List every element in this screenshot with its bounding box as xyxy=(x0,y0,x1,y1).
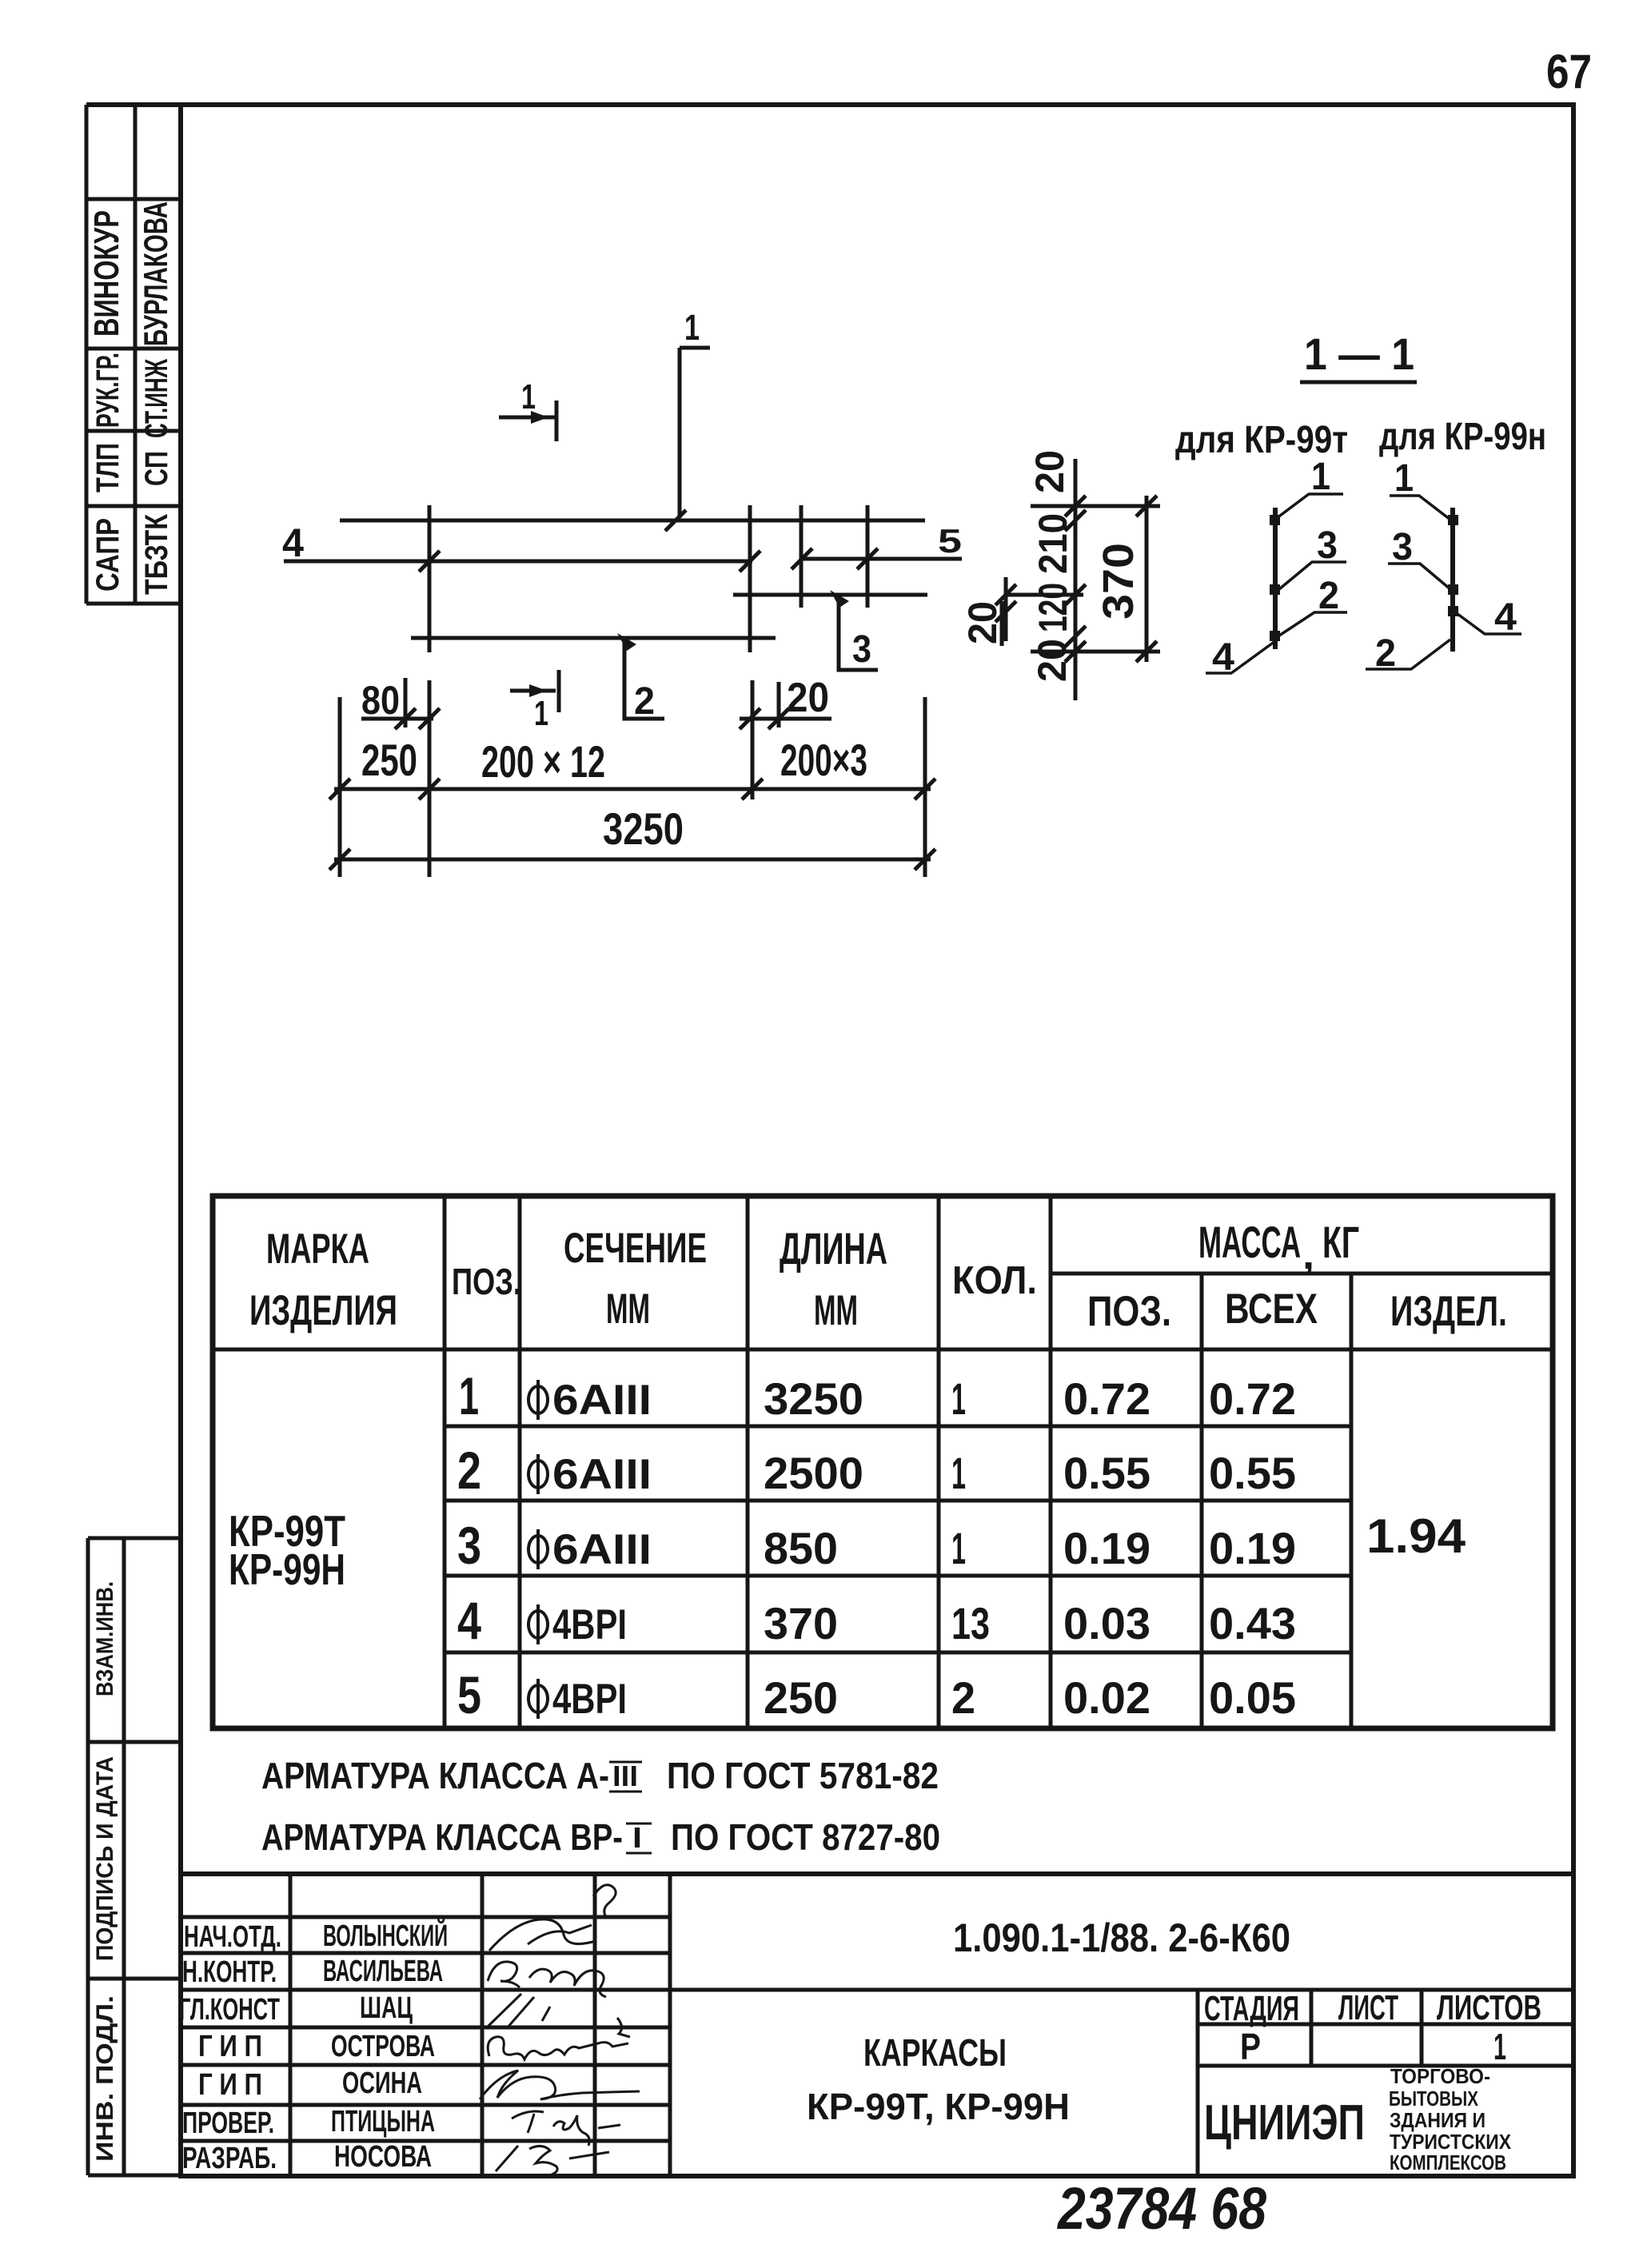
svg-text:2500: 2500 xyxy=(764,1448,863,1498)
svg-text:120: 120 xyxy=(1031,583,1075,632)
dimension 370 line xyxy=(1095,496,1157,662)
svg-text:6АIII: 6АIII xyxy=(552,1526,652,1573)
svg-text:ВАСИЛЬЕВА: ВАСИЛЬЕВА xyxy=(323,1955,443,1988)
sheet count 1 xyxy=(1493,2026,1506,2067)
svg-text:Р: Р xyxy=(1240,2026,1261,2067)
svg-text:4: 4 xyxy=(282,520,304,565)
detail KR-99t leader 2 xyxy=(1279,575,1347,636)
caption для КР-99т xyxy=(1175,419,1348,461)
svg-text:БЫТОВЫХ: БЫТОВЫХ xyxy=(1389,2087,1479,2111)
header СТАДИЯ xyxy=(1204,1989,1299,2028)
svg-text:1.090.1-1/88. 2-6-К60: 1.090.1-1/88. 2-6-К60 xyxy=(953,1915,1290,1960)
svg-text:НОСОВА: НОСОВА xyxy=(334,2140,432,2174)
section dimension chain line xyxy=(1006,459,1160,700)
svg-text:250: 250 xyxy=(361,735,417,785)
stirrup bar 4 right xyxy=(748,505,752,652)
header ЛИСТОВ xyxy=(1437,1988,1541,2027)
svg-text:4ВРI: 4ВРI xyxy=(552,1676,627,1723)
svg-text:,: , xyxy=(1302,1230,1314,1278)
svg-text:ТЛП: ТЛП xyxy=(90,443,126,492)
dimension 20 (cover) xyxy=(740,675,831,729)
svg-text:1: 1 xyxy=(534,694,548,733)
svg-text:1: 1 xyxy=(1493,2026,1506,2067)
signature Ptitsyna xyxy=(512,2111,620,2146)
title name ПТИЦЫНА xyxy=(331,2105,435,2138)
svg-text:67: 67 xyxy=(1546,45,1592,98)
svg-text:ИНВ. ПОДЛ.: ИНВ. ПОДЛ. xyxy=(92,1995,118,2162)
table header ПОЗ. xyxy=(452,1261,521,1302)
svg-text:2: 2 xyxy=(634,680,655,723)
svg-text:СТ.ИНЖ: СТ.ИНЖ xyxy=(139,358,174,438)
section line 1 (vertical cut line) xyxy=(680,307,710,518)
svg-text:МАРКА: МАРКА xyxy=(266,1226,369,1273)
svg-text:ПОДПИСЬ И ДАТА: ПОДПИСЬ И ДАТА xyxy=(92,1756,118,1961)
section title 1-1 xyxy=(1300,329,1417,382)
svg-text:РУК.ГР.: РУК.ГР. xyxy=(90,353,126,428)
doc number 1.090.1-1/88. 2-6-К60 xyxy=(953,1915,1290,1960)
table subheader ИЗДЕЛ. xyxy=(1390,1288,1507,1335)
svg-text:20: 20 xyxy=(1027,450,1072,493)
svg-text:ЛИСТОВ: ЛИСТОВ xyxy=(1437,1988,1541,2027)
stirrup bar 5 second xyxy=(866,505,870,608)
svg-text:СП: СП xyxy=(139,451,174,486)
svg-text:РАЗРАБ.: РАЗРАБ. xyxy=(182,2142,277,2175)
svg-text:ТОРГОВО-: ТОРГОВО- xyxy=(1390,2064,1490,2088)
svg-text:5: 5 xyxy=(457,1665,481,1724)
title role Н.КОНТР. xyxy=(182,1955,277,1989)
detail KR-99n leader 1 xyxy=(1390,457,1450,520)
title block grid xyxy=(181,1874,1573,2176)
svg-text:3250: 3250 xyxy=(764,1373,863,1424)
svg-text:ЛИСТ: ЛИСТ xyxy=(1338,1988,1398,2027)
svg-text:0.72: 0.72 xyxy=(1063,1373,1151,1424)
page number 67 xyxy=(1546,45,1592,98)
svg-text:СЕЧЕНИЕ: СЕЧЕНИЕ xyxy=(564,1225,707,1272)
svg-text:ПО ГОСТ 5781-82: ПО ГОСТ 5781-82 xyxy=(667,1755,939,1796)
handwritten inventory number 23784 68 xyxy=(1056,2175,1266,2242)
svg-text:1 — 1: 1 — 1 xyxy=(1304,329,1414,379)
table row 3 xyxy=(457,1516,1296,1575)
svg-text:ПТИЦЫНА: ПТИЦЫНА xyxy=(331,2105,435,2138)
leader callout 3 xyxy=(830,590,878,671)
svg-text:0.55: 0.55 xyxy=(1063,1448,1151,1498)
svg-text:ПОЗ.: ПОЗ. xyxy=(452,1261,521,1302)
table mark КР-99Т КР-99Н xyxy=(229,1506,345,1594)
stirrup bar 5 first xyxy=(800,505,804,608)
doc title КР-99Т, КР-99Н xyxy=(807,2086,1070,2127)
svg-text:200 × 12: 200 × 12 xyxy=(481,736,605,787)
svg-text:1.94: 1.94 xyxy=(1366,1509,1466,1563)
svg-text:ЦНИИЭП: ЦНИИЭП xyxy=(1204,2095,1365,2150)
leader callout 2 xyxy=(617,633,664,723)
svg-text:КГ: КГ xyxy=(1322,1217,1359,1267)
stamp label СТ.ИНЖ xyxy=(139,358,174,438)
header ЛИСТ xyxy=(1338,1988,1398,2027)
phi symbol row 3 xyxy=(528,1529,548,1569)
stirrup bar 4 left xyxy=(428,505,432,652)
svg-text:Г И П: Г И П xyxy=(198,2068,262,2102)
title role РАЗРАБ. xyxy=(182,2142,277,2175)
table header СЕЧЕНИЕ ММ xyxy=(564,1225,707,1333)
title role ГЛ.КОНСТ xyxy=(179,1993,280,2027)
detail KR-99t leader 1 xyxy=(1277,456,1343,518)
stamp label САПР xyxy=(90,518,126,592)
svg-text:23784 68: 23784 68 xyxy=(1056,2175,1266,2242)
svg-text:0.55: 0.55 xyxy=(1209,1448,1296,1498)
note armature A-III xyxy=(261,1755,939,1796)
table header КОЛ. xyxy=(952,1259,1037,1302)
stamp label РУК.ГР. xyxy=(90,353,126,428)
svg-text:НАЧ.ОТД.: НАЧ.ОТД. xyxy=(184,1920,281,1954)
title role ПРОВЕР. xyxy=(182,2107,274,2140)
dimension 20 bottom (rotated) xyxy=(1030,639,1075,682)
svg-text:САПР: САПР xyxy=(90,518,126,592)
table row 2 xyxy=(457,1441,1296,1500)
detail KR-99n main bar xyxy=(1450,508,1455,652)
svg-text:КАРКАСЫ: КАРКАСЫ xyxy=(863,2032,1007,2075)
detail KR-99t main bar xyxy=(1273,508,1278,649)
svg-text:0.43: 0.43 xyxy=(1209,1598,1296,1648)
svg-text:1: 1 xyxy=(951,1373,966,1424)
svg-text:МАССА: МАССА xyxy=(1198,1217,1301,1267)
title role ГИП 2 xyxy=(198,2068,262,2102)
detail KR-99n weld points xyxy=(1448,515,1458,616)
svg-text:ВСЕХ: ВСЕХ xyxy=(1225,1285,1318,1333)
svg-text:КОМПЛЕКСОВ: КОМПЛЕКСОВ xyxy=(1390,2150,1506,2174)
phi symbol row 2 xyxy=(528,1454,548,1494)
svg-text:2: 2 xyxy=(1375,632,1396,675)
svg-text:4: 4 xyxy=(1494,596,1517,639)
leader line pos.4 xyxy=(284,560,752,564)
svg-text:6АIII: 6АIII xyxy=(552,1451,652,1498)
stamp label ТЛП xyxy=(90,443,126,492)
svg-text:250: 250 xyxy=(764,1672,838,1723)
svg-text:850: 850 xyxy=(764,1523,838,1573)
detail KR-99t leader 3 xyxy=(1279,524,1346,589)
svg-text:III: III xyxy=(612,1760,638,1792)
detail KR-99t leader 4 xyxy=(1206,636,1275,679)
svg-text:1: 1 xyxy=(521,377,536,417)
bar 2 (pos.2 longitudinal bar) xyxy=(411,636,776,640)
svg-text:4: 4 xyxy=(1212,636,1234,679)
svg-text:ИЗДЕЛ.: ИЗДЕЛ. xyxy=(1390,1288,1507,1335)
svg-text:2: 2 xyxy=(951,1672,975,1723)
svg-text:АРМАТУРА КЛАССА ВР-: АРМАТУРА КЛАССА ВР- xyxy=(261,1816,623,1858)
detail KR-99n leader 3 xyxy=(1388,526,1450,589)
table subheader ПОЗ. xyxy=(1087,1288,1171,1335)
stamp label ТБЗТК xyxy=(139,514,174,595)
svg-text:80: 80 xyxy=(361,678,400,723)
svg-text:ПРОВЕР.: ПРОВЕР. xyxy=(182,2107,274,2140)
svg-text:0.19: 0.19 xyxy=(1063,1523,1151,1573)
table header ДЛИНА ММ xyxy=(780,1223,887,1334)
table subheader ВСЕХ xyxy=(1225,1285,1318,1333)
svg-text:ММ: ММ xyxy=(606,1285,650,1333)
stage Р xyxy=(1240,2026,1261,2067)
svg-text:ДЛИНА: ДЛИНА xyxy=(780,1223,887,1274)
svg-text:для КР-99н: для КР-99н xyxy=(1379,416,1546,458)
svg-text:Н.КОНТР.: Н.КОНТР. xyxy=(182,1955,277,1989)
doc title КАРКАСЫ xyxy=(863,2032,1007,2075)
extension lines xyxy=(340,680,925,877)
title role НАЧ.ОТД. xyxy=(184,1920,281,1954)
stamp label ВИНОКУР xyxy=(87,210,126,337)
tick marks on bar lines xyxy=(419,510,878,572)
table mass per item 1.94 xyxy=(1366,1509,1466,1563)
svg-text:3: 3 xyxy=(1392,526,1413,568)
dimension 20 top (rotated) xyxy=(1027,450,1072,493)
title name НОСОВА xyxy=(334,2140,432,2174)
svg-text:КОЛ.: КОЛ. xyxy=(952,1259,1037,1302)
note armature BP-I xyxy=(261,1816,940,1858)
svg-text:ИЗДЕЛИЯ: ИЗДЕЛИЯ xyxy=(249,1287,397,1334)
svg-text:ТБЗТК: ТБЗТК xyxy=(139,514,174,595)
org ЦНИИЭП xyxy=(1204,2095,1365,2150)
stamp label БУРЛАКОВА xyxy=(137,201,174,346)
svg-text:0.05: 0.05 xyxy=(1209,1672,1296,1723)
svg-text:4: 4 xyxy=(457,1591,481,1650)
svg-text:СТАДИЯ: СТАДИЯ xyxy=(1204,1989,1299,2028)
bar 1 (pos.1 longitudinal bar) xyxy=(340,519,925,523)
stamp label ВЗАМ.ИНВ. xyxy=(92,1581,118,1696)
svg-text:ММ: ММ xyxy=(814,1287,858,1334)
svg-text:2: 2 xyxy=(457,1441,481,1500)
svg-text:6АIII: 6АIII xyxy=(552,1377,652,1424)
dimension 20 left mini xyxy=(960,577,1016,646)
table row 4 xyxy=(457,1591,1296,1650)
signature Shats xyxy=(488,1994,630,2037)
detail KR-99t weld points xyxy=(1270,515,1280,641)
phi symbol row 1 xyxy=(528,1380,548,1420)
svg-text:210: 210 xyxy=(1031,513,1075,574)
svg-text:5: 5 xyxy=(938,522,962,560)
svg-text:ШАЦ: ШАЦ xyxy=(360,1991,413,2025)
svg-text:3: 3 xyxy=(457,1516,481,1575)
svg-text:1: 1 xyxy=(951,1448,966,1498)
svg-text:3: 3 xyxy=(852,628,871,671)
svg-text:ВИНОКУР: ВИНОКУР xyxy=(87,210,126,337)
svg-text:ЗДАНИЯ И: ЗДАНИЯ И xyxy=(1390,2108,1485,2132)
section chain ticks xyxy=(1065,496,1086,662)
svg-text:3: 3 xyxy=(1317,524,1338,567)
bottom-left stamp grid xyxy=(88,1538,181,2175)
table row 5 xyxy=(457,1665,1296,1724)
signature Volynsky xyxy=(489,1885,616,1951)
title name ШАЦ xyxy=(360,1991,413,2025)
svg-text:1: 1 xyxy=(951,1523,966,1573)
table grid xyxy=(213,1196,1553,1728)
title name ОСТРОВА xyxy=(331,2030,435,2063)
svg-text:4ВРI: 4ВРI xyxy=(552,1601,627,1648)
svg-text:ВЗАМ.ИНВ.: ВЗАМ.ИНВ. xyxy=(92,1581,118,1696)
bar 3 (pos.3 short bar) xyxy=(733,593,927,597)
svg-text:20: 20 xyxy=(1030,639,1075,682)
section mark 1 upper xyxy=(499,377,556,441)
dimension 120 (rotated) xyxy=(1031,583,1075,632)
phi symbol row 4 xyxy=(528,1604,548,1644)
svg-text:АРМАТУРА КЛАССА А-: АРМАТУРА КЛАССА А- xyxy=(261,1755,609,1796)
svg-text:20: 20 xyxy=(787,675,829,721)
signature Osina xyxy=(480,2071,640,2099)
label 4 xyxy=(282,520,304,565)
table header МАРКА ИЗДЕЛИЯ xyxy=(249,1226,397,1334)
svg-text:13: 13 xyxy=(951,1598,990,1648)
svg-text:1: 1 xyxy=(684,307,700,348)
table header МАССА, КГ xyxy=(1198,1217,1359,1278)
dimension 3250 xyxy=(329,803,935,870)
top-left stamp grid xyxy=(86,105,181,604)
table row 1 xyxy=(459,1366,1296,1425)
detail KR-99n leader 4 xyxy=(1454,596,1521,639)
svg-text:20: 20 xyxy=(960,601,1005,644)
svg-text:ОСИНА: ОСИНА xyxy=(342,2067,422,2100)
signature Nosova xyxy=(496,2146,609,2174)
signature Ostrova xyxy=(488,2037,628,2059)
svg-text:КР-99Н: КР-99Н xyxy=(229,1545,345,1594)
dimension 210 (rotated) xyxy=(1031,513,1075,574)
stamp label ПОДПИСЬ И ДАТА xyxy=(92,1756,118,1961)
svg-text:1: 1 xyxy=(1311,456,1330,498)
stamp label СП xyxy=(139,451,174,486)
svg-text:0.19: 0.19 xyxy=(1209,1523,1296,1573)
title name ОСИНА xyxy=(342,2067,422,2100)
leader line pos.5 xyxy=(801,557,962,561)
signature Vasileva xyxy=(488,1962,606,1997)
title name ВОЛЫНСКИЙ xyxy=(323,1917,448,1953)
svg-text:3250: 3250 xyxy=(603,803,684,854)
svg-text:0.03: 0.03 xyxy=(1063,1598,1151,1648)
svg-text:КР-99Т, КР-99Н: КР-99Т, КР-99Н xyxy=(807,2086,1070,2127)
svg-text:ПО ГОСТ 8727-80: ПО ГОСТ 8727-80 xyxy=(671,1816,940,1858)
svg-text:БУРЛАКОВА: БУРЛАКОВА xyxy=(137,201,174,346)
svg-text:ВОЛЫНСКИЙ: ВОЛЫНСКИЙ xyxy=(323,1917,448,1953)
label 5 xyxy=(938,522,962,560)
title name ВАСИЛЬЕВА xyxy=(323,1955,443,1988)
svg-text:2: 2 xyxy=(1318,575,1339,617)
stamp label ИНВ. ПОДЛ. xyxy=(92,1995,118,2162)
svg-text:200×3: 200×3 xyxy=(780,735,867,785)
phi symbol row 5 xyxy=(528,1679,548,1719)
svg-text:370: 370 xyxy=(1095,543,1143,620)
caption для КР-99н xyxy=(1379,416,1546,458)
org subtitle xyxy=(1389,2064,1512,2174)
title role ГИП 1 xyxy=(198,2030,262,2063)
svg-text:0.02: 0.02 xyxy=(1063,1672,1151,1723)
detail KR-99n leader 2 xyxy=(1366,632,1450,675)
svg-text:Г И П: Г И П xyxy=(198,2030,262,2063)
svg-text:ГЛ.КОНСТ: ГЛ.КОНСТ xyxy=(179,1993,280,2027)
svg-text:ОСТРОВА: ОСТРОВА xyxy=(331,2030,435,2063)
svg-text:1: 1 xyxy=(459,1366,479,1425)
svg-text:370: 370 xyxy=(764,1598,838,1648)
svg-text:0.72: 0.72 xyxy=(1209,1373,1296,1424)
svg-text:ПОЗ.: ПОЗ. xyxy=(1087,1288,1171,1335)
svg-text:I: I xyxy=(632,1821,642,1854)
dimension 80 xyxy=(361,678,440,729)
svg-text:1: 1 xyxy=(1394,457,1414,500)
section mark 1 lower xyxy=(510,670,559,733)
dimension chain 250 / 200x12 / 200x3 xyxy=(329,735,935,799)
